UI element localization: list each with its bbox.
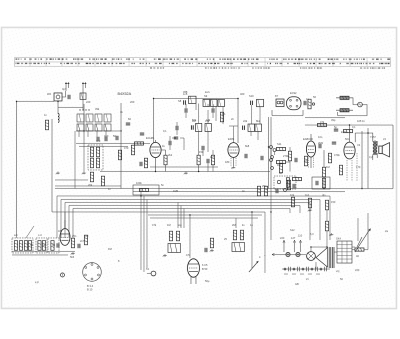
band switch unit SK3	[48, 238, 59, 253]
resistor R9	[255, 124, 262, 131]
resistor R26	[308, 198, 312, 211]
capacitor C18	[319, 144, 321, 148]
trimmer C1	[68, 95, 70, 99]
resistor R28	[325, 210, 333, 247]
svg-text:3,2: 3,2	[369, 155, 373, 159]
wire IF top row	[154, 97, 239, 99]
wire x362 rail	[361, 131, 363, 189]
resistor R27	[325, 200, 328, 210]
resistor R31	[288, 147, 291, 172]
svg-text:2×: 2×	[306, 277, 309, 281]
capacitor C13	[207, 159, 209, 172]
tube V2 EF89	[228, 137, 239, 166]
ground G2	[82, 171, 86, 174]
wire drop x270	[270, 189, 272, 241]
AM coil pack L3	[86, 114, 93, 122]
svg-text:460: 460	[240, 92, 245, 96]
svg-text:6 C5: 6 C5	[202, 263, 208, 267]
resistor R29	[352, 213, 368, 251]
value labels scatter	[14, 87, 387, 283]
svg-text:1M: 1M	[192, 119, 196, 123]
resistor R36	[279, 163, 282, 173]
IF transformer S2	[203, 99, 210, 106]
resistor R23	[210, 238, 214, 252]
mains lead N	[291, 236, 296, 252]
svg-text:S8: S8	[178, 99, 182, 103]
wire x368 rail	[367, 128, 369, 189]
resistor R6	[205, 124, 211, 132]
rectifier M1	[307, 247, 316, 260]
svg-text:WA: WA	[47, 92, 51, 96]
IF transformer S3	[257, 99, 264, 106]
parts table column dividers	[30, 58, 367, 67]
svg-text:25n: 25n	[72, 234, 77, 238]
antenna terminal A1	[65, 82, 69, 91]
resistor R2	[118, 150, 121, 160]
AM coil pack L5	[104, 114, 111, 122]
wire R5 drop	[199, 103, 216, 155]
svg-text:220: 220	[355, 268, 360, 272]
resistor R30	[211, 150, 214, 172]
svg-text:EC92: EC92	[290, 91, 297, 95]
capacitor C16	[304, 101, 306, 105]
screen components box K3	[274, 176, 296, 189]
coil L1	[58, 113, 59, 122]
capacitor C9	[174, 137, 178, 139]
wire V2 grid column	[229, 126, 238, 143]
resistor R3	[135, 142, 144, 145]
wire oscillator rail	[51, 119, 53, 212]
wire IFT2 drops	[251, 105, 260, 140]
junction row dots	[79, 109, 89, 110]
bus wire B3	[61, 199, 320, 240]
capacitor C30	[243, 126, 245, 130]
trimmer row C3	[86, 124, 93, 131]
capacitor C26	[105, 137, 107, 141]
svg-text:220: 220	[84, 234, 89, 238]
wire V6 grid feed	[64, 212, 66, 229]
svg-text:47k: 47k	[205, 119, 210, 123]
svg-text:8k2: 8k2	[256, 119, 261, 123]
detector cluster	[284, 177, 302, 191]
svg-text:a-b: a-b	[14, 233, 18, 237]
svg-text:c-d: c-d	[38, 233, 42, 237]
diode wires	[271, 149, 277, 167]
svg-text:150: 150	[331, 200, 336, 204]
svg-text:47k: 47k	[152, 223, 157, 227]
ground G1	[56, 171, 60, 174]
svg-text:200: 200	[130, 100, 135, 104]
wire IF box drops	[186, 104, 213, 118]
cathode resistor R38	[140, 158, 148, 168]
wire mixer column full	[83, 140, 85, 172]
wire HT rail pair a	[267, 117, 269, 189]
svg-text:EL84: EL84	[341, 130, 348, 134]
wire AF top rail 2	[305, 117, 345, 119]
capacitor C15	[245, 154, 247, 158]
svg-text:0,1: 0,1	[352, 125, 356, 129]
capacitor C21	[205, 248, 207, 252]
svg-text:25n: 25n	[262, 184, 267, 188]
grid resistor R34	[131, 145, 134, 155]
svg-text:2M: 2M	[232, 223, 236, 227]
wire switch bottom b	[12, 254, 68, 256]
capacitor C8	[169, 141, 171, 145]
svg-text:1M5: 1M5	[173, 189, 179, 193]
svg-text:127: 127	[291, 236, 296, 240]
resistor R35	[220, 112, 223, 122]
resistor R18	[328, 153, 331, 163]
wire selector riser b	[357, 218, 359, 241]
diagonal cord P3	[357, 237, 362, 247]
tone stack R24	[232, 230, 245, 251]
resistor R8	[248, 124, 255, 131]
tube V6 EF86	[60, 220, 70, 245]
svg-text:10k: 10k	[290, 193, 295, 197]
trimmer row C4	[95, 124, 102, 131]
bus wire B1	[55, 187, 345, 189]
parts list table frame	[15, 58, 391, 67]
capacitor C24	[295, 158, 297, 162]
jack J2	[60, 273, 64, 277]
IF trimmer C10	[184, 100, 186, 104]
svg-text:4n7: 4n7	[210, 155, 215, 159]
tube base diagram V8	[83, 263, 102, 292]
resistor R33	[101, 176, 104, 186]
wire coupler down	[57, 101, 59, 114]
capacitor C11	[185, 108, 187, 112]
wire R6 drop	[207, 110, 209, 152]
bus wire B9	[150, 217, 258, 219]
svg-text:410: 410	[104, 134, 109, 138]
svg-text:220: 220	[280, 236, 285, 240]
wire lamp loop	[336, 98, 367, 116]
resistor R10	[277, 147, 286, 150]
wire chassis bus extension	[345, 188, 393, 190]
svg-text:B 3-4: B 3-4	[87, 284, 94, 288]
svg-text:din: din	[322, 193, 326, 197]
band switch unit SK1	[12, 238, 33, 253]
svg-text:110: 110	[298, 234, 303, 238]
svg-text:0,1: 0,1	[163, 129, 167, 133]
svg-text:EABC80: EABC80	[303, 137, 314, 141]
capacitor C22	[202, 146, 204, 156]
capacitor C29	[191, 125, 193, 129]
oscillator box L6	[88, 145, 103, 170]
capacitor C28	[261, 156, 263, 160]
svg-text:7×57: 7×57	[370, 135, 376, 139]
svg-text:150: 150	[199, 150, 204, 154]
wire osc mid	[55, 179, 88, 181]
svg-text:V4: V4	[357, 143, 361, 147]
resistor R13	[340, 96, 349, 99]
wire left rail diagonal	[26, 226, 34, 238]
svg-text:5k6: 5k6	[70, 255, 75, 259]
wire coil bottom b	[79, 145, 128, 147]
tube V7 EC92 capsule	[287, 97, 302, 110]
wire grid top	[153, 98, 155, 142]
dash row under fuse	[284, 273, 320, 275]
svg-text:B 10: B 10	[87, 287, 93, 291]
svg-text:22k: 22k	[243, 119, 248, 123]
svg-text:0,5: 0,5	[186, 253, 190, 257]
resistor R11	[277, 160, 291, 163]
capacitor C12	[212, 108, 214, 112]
capacitor C20	[78, 244, 80, 248]
grid capacitor C27	[126, 123, 130, 125]
mains lead L	[280, 236, 285, 252]
wire selector feed	[316, 247, 355, 269]
svg-text:470: 470	[124, 146, 129, 150]
cathode resistor R19	[339, 165, 342, 175]
svg-text:180: 180	[225, 160, 230, 164]
svg-text:B 50: B 50	[202, 267, 208, 271]
AM coil pack L2	[77, 114, 84, 122]
svg-text:2M2: 2M2	[318, 141, 324, 145]
svg-text:4 P: 4 P	[35, 280, 39, 284]
svg-text:20k: 20k	[88, 183, 93, 187]
bus wire B2	[57, 196, 330, 240]
resistor R4	[164, 150, 167, 172]
svg-text:ECH81: ECH81	[146, 136, 155, 140]
svg-text:105 11: 105 11	[357, 119, 365, 123]
padder C6	[116, 136, 118, 140]
svg-text:170: 170	[356, 165, 361, 169]
mains lead E	[298, 234, 303, 253]
potentiometer arrow P1	[249, 261, 259, 272]
capacitor C25	[97, 137, 99, 141]
svg-text:0,1: 0,1	[222, 112, 226, 116]
tube V3 EABC80	[303, 134, 316, 168]
bus wire B4	[65, 202, 310, 240]
diode load D2	[270, 159, 273, 162]
wire AM coil row	[76, 130, 120, 132]
wire drop x181	[180, 205, 182, 228]
svg-text:458: 458	[183, 90, 188, 94]
AM coil pack L4	[95, 114, 102, 122]
voltage selector SK4	[336, 237, 352, 264]
IF box S1b	[218, 100, 225, 107]
svg-text:SK4: SK4	[336, 237, 341, 241]
svg-text:1M: 1M	[326, 165, 330, 169]
svg-text:220: 220	[86, 100, 91, 104]
wire coil bottom a	[76, 142, 150, 144]
heater lead dashed c	[356, 153, 358, 181]
bus wire B7	[52, 211, 265, 213]
wire switch bottom a	[12, 250, 75, 252]
resistor R20	[71, 238, 74, 248]
fuse row VL1	[282, 267, 330, 271]
loudspeaker LS1	[377, 141, 389, 158]
resistor R7	[197, 155, 200, 171]
wire drop x252	[251, 212, 253, 268]
ground G4	[231, 166, 235, 169]
resistor R16	[344, 129, 353, 132]
svg-text:FM: FM	[108, 247, 112, 251]
parts table row text marks	[16, 58, 390, 68]
capacitor C19	[332, 142, 336, 144]
heater dashed under V2	[231, 158, 236, 166]
wire drop x147	[146, 199, 148, 268]
svg-text:6k8: 6k8	[245, 144, 250, 148]
bus wire B6	[73, 208, 290, 238]
aerial coupler box WA	[47, 92, 62, 101]
wire FM loop	[272, 110, 303, 116]
resistor R21	[84, 235, 87, 245]
wire aerial link	[58, 106, 83, 108]
svg-text:1k2: 1k2	[305, 193, 310, 197]
AF coupling box K2	[257, 186, 278, 196]
resistor R12	[308, 99, 315, 109]
svg-text:6,3: 6,3	[310, 232, 314, 236]
IF transformer S1	[178, 96, 196, 103]
wire IF bus	[100, 170, 270, 172]
wire AF top rail	[305, 124, 393, 126]
capacitor C7	[140, 133, 144, 135]
tube V5 UL84	[187, 259, 208, 284]
AF coupling box K1	[133, 185, 159, 195]
svg-text:AM: AM	[58, 229, 62, 233]
svg-text:S12: S12	[290, 228, 295, 232]
tube V4 EL84	[341, 125, 355, 159]
heater lead dashed a	[346, 160, 348, 181]
capacitor C17	[334, 129, 338, 131]
svg-text:S1: S1	[30, 243, 34, 247]
tube V1 ECH81	[146, 136, 161, 172]
wire mains feed	[264, 253, 306, 257]
svg-text:39p: 39p	[331, 118, 336, 122]
wire drop x190	[189, 215, 191, 258]
trimmer row C2	[77, 124, 84, 131]
svg-text:S9: S9	[204, 94, 208, 98]
wire drop x265	[264, 212, 266, 273]
coil taps row	[79, 131, 106, 137]
wire mixer mid	[150, 166, 218, 168]
svg-text:S10: S10	[249, 94, 254, 98]
wire drop x236	[235, 218, 237, 228]
resistor R32	[90, 172, 93, 182]
resistor R14	[340, 109, 349, 112]
ground G6	[163, 254, 167, 257]
wire x75 rail	[74, 131, 76, 188]
svg-text:2k2: 2k2	[168, 153, 173, 157]
output transformer T1	[355, 133, 377, 160]
svg-text:4p7: 4p7	[62, 87, 67, 91]
jack J1	[147, 271, 156, 276]
svg-text:470k: 470k	[334, 153, 340, 157]
lamp LA1	[358, 102, 363, 107]
wire V2 anode top	[237, 99, 239, 143]
svg-text:39k: 39k	[95, 107, 100, 111]
wire aerial input	[17, 100, 55, 102]
resistor R5	[196, 123, 202, 131]
svg-text:vrij: vrij	[336, 269, 340, 273]
choke on antenna lead	[80, 93, 86, 100]
wire HT rail pair b	[270, 117, 272, 188]
resistor R25	[291, 197, 294, 207]
svg-text:kc/s: kc/s	[205, 90, 210, 94]
mains transformer T2	[316, 247, 334, 268]
svg-text:1M: 1M	[277, 163, 281, 167]
svg-text:B4X52A: B4X52A	[118, 92, 132, 96]
resistor R17	[322, 150, 325, 189]
svg-text:TA: TA	[146, 267, 149, 271]
volume control R22	[168, 231, 181, 252]
wire left rail	[15, 101, 17, 238]
wire osc bottom	[55, 185, 121, 187]
svg-text:1M: 1M	[167, 223, 171, 227]
wire rectifier top	[311, 246, 327, 248]
wire V1 column joins	[161, 136, 184, 150]
wire chassis bus lower	[133, 190, 345, 192]
svg-text:50n: 50n	[345, 137, 350, 141]
svg-text:50µ: 50µ	[205, 279, 210, 283]
svg-text:S11: S11	[277, 142, 282, 146]
svg-text:S5: S5	[52, 243, 56, 247]
svg-text:100k: 100k	[136, 181, 142, 185]
extra labels pass2	[30, 92, 373, 286]
screen components box K4	[312, 177, 330, 189]
svg-text:2n7: 2n7	[80, 239, 85, 243]
IF trimmer C14	[251, 101, 253, 105]
wire drop x178	[177, 202, 179, 227]
capacitor C23	[176, 122, 178, 135]
resistor R15	[318, 123, 327, 126]
resistor R1	[45, 120, 48, 130]
wire mixer column	[83, 104, 85, 140]
trimmer row C5	[104, 124, 111, 131]
FM unit coupler box	[276, 99, 284, 107]
svg-text:log: log	[178, 223, 182, 227]
wire antenna to coupler	[62, 91, 66, 97]
antenna terminal A2	[82, 82, 86, 110]
wire drop x141	[140, 188, 142, 270]
wire x121 rail	[120, 103, 122, 189]
ground G3	[184, 171, 188, 174]
bus wire B8	[148, 214, 262, 216]
svg-text:S3: S3	[42, 243, 46, 247]
dial lamp LA3	[296, 252, 300, 256]
diode circles V3 left	[271, 156, 274, 170]
wire right edge rail	[392, 125, 394, 188]
resistor R37	[304, 156, 307, 166]
wire x223 drop	[222, 107, 224, 125]
wire drop x144	[143, 196, 145, 272]
svg-text:10n: 10n	[318, 135, 323, 139]
heater lead dashed b	[351, 160, 353, 181]
diode load D1	[270, 146, 277, 152]
svg-text:47k: 47k	[320, 120, 325, 124]
ground G5	[71, 252, 75, 255]
svg-text:GB: GB	[295, 282, 299, 286]
potentiometer arrow P2	[355, 228, 371, 252]
bus wire B5	[69, 205, 300, 238]
svg-text:3n9: 3n9	[96, 139, 101, 143]
heater dashed under V3	[309, 158, 314, 169]
dial lamp LA2	[286, 252, 290, 256]
IF transformer S2b	[211, 99, 218, 106]
wire drop x184	[183, 208, 185, 228]
band switch unit SK2	[36, 238, 47, 253]
